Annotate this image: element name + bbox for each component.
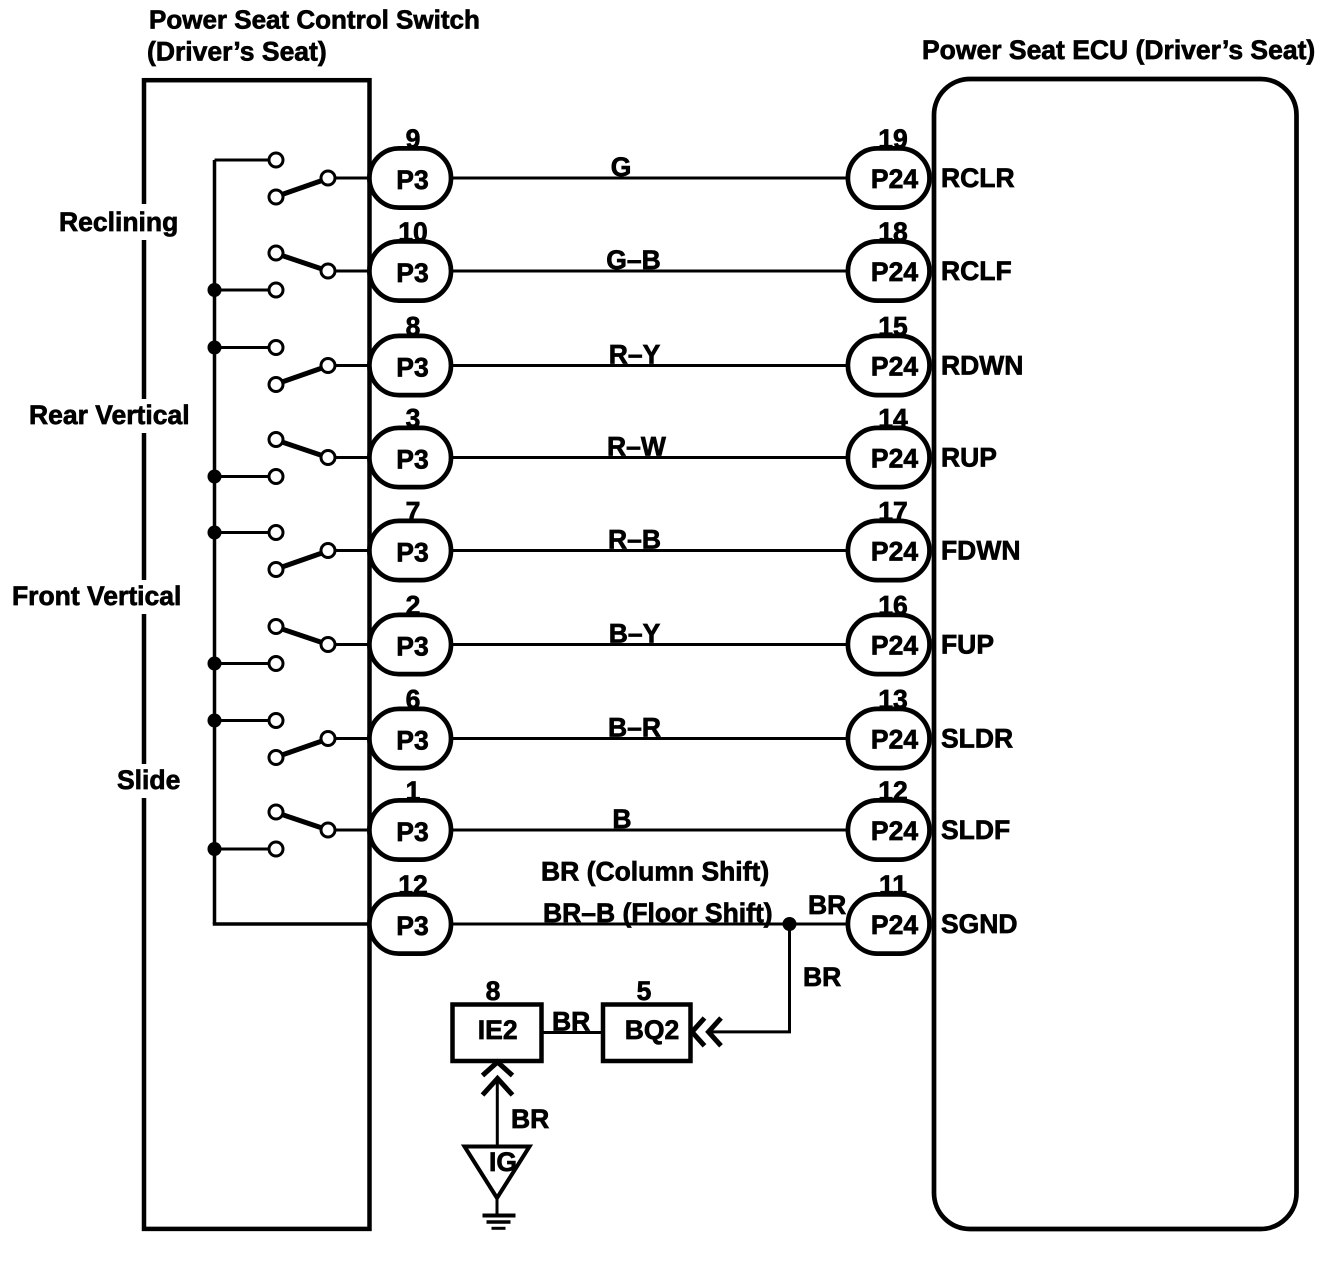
wire R–W (row 4) <box>451 432 849 462</box>
svg-text:R–Y: R–Y <box>609 340 661 370</box>
svg-text:P24: P24 <box>871 352 918 382</box>
connector P24 pin 13 <box>848 685 930 769</box>
svg-text:G–B: G–B <box>606 245 661 275</box>
wire G–B (row 2) <box>451 245 849 275</box>
label: Front Vertical <box>5 580 181 614</box>
connector P3 pin 12 <box>369 870 451 954</box>
signal RCLF <box>941 256 1012 286</box>
connector IE2 pin 8 <box>453 976 542 1061</box>
label BR (IE2-BQ2 wire) <box>552 1007 590 1037</box>
svg-text:7: 7 <box>406 497 421 527</box>
label BR (near junction) <box>808 890 846 920</box>
svg-text:P3: P3 <box>396 911 428 941</box>
connector P24 pin 16 <box>848 591 930 675</box>
switch box (Power Seat Control Switch, Driver's Seat) <box>144 80 370 1229</box>
svg-text:P24: P24 <box>871 257 918 287</box>
svg-text:SLDF: SLDF <box>941 815 1010 845</box>
svg-text:14: 14 <box>878 404 908 434</box>
label: Slide <box>110 764 184 798</box>
signal SLDF <box>941 815 1010 845</box>
svg-text:12: 12 <box>398 870 427 900</box>
wire G (row 1) <box>451 152 849 182</box>
svg-text:P3: P3 <box>396 632 428 662</box>
svg-text:BR (Column Shift): BR (Column Shift) <box>541 857 769 887</box>
svg-text:10: 10 <box>398 217 427 247</box>
svg-text:G: G <box>611 152 632 182</box>
connector P3 pin 9 <box>369 124 451 208</box>
svg-text:P24: P24 <box>871 444 918 474</box>
connector chevrons at BQ2 right (<<) <box>692 1018 721 1046</box>
switch S2 (Reclining front) <box>208 246 373 297</box>
signal RUP <box>941 443 997 473</box>
wire R–B (row 5) <box>451 525 849 555</box>
label BR (IG wire) <box>511 1104 549 1134</box>
svg-text:BR: BR <box>803 962 841 992</box>
svg-text:BR: BR <box>511 1104 549 1134</box>
connector P24 pin 18 <box>848 217 930 301</box>
wire: IE2 to BQ2 (BR) <box>542 1031 604 1034</box>
svg-text:RCLR: RCLR <box>941 163 1015 193</box>
svg-text:16: 16 <box>878 591 907 621</box>
svg-text:BQ2: BQ2 <box>625 1015 680 1045</box>
svg-text:2: 2 <box>406 591 421 621</box>
connector P24 pin 17 <box>848 497 930 581</box>
connector P3 pin 3 <box>369 404 451 488</box>
ECU box (Power Seat ECU, Driver's Seat) <box>934 79 1297 1229</box>
svg-text:P24: P24 <box>871 910 918 940</box>
switch S8 (Slide front) <box>208 805 373 856</box>
svg-text:R–W: R–W <box>607 432 666 462</box>
connector P24 pin 19 <box>848 124 930 208</box>
connector P24 pin 12 <box>848 776 930 860</box>
connector chevrons below IE2 (^^) <box>483 1062 513 1095</box>
connector P3 pin 6 <box>369 685 451 769</box>
svg-text:P3: P3 <box>396 817 428 847</box>
svg-text:P24: P24 <box>871 816 918 846</box>
svg-text:FDWN: FDWN <box>941 536 1020 566</box>
svg-text:RCLF: RCLF <box>941 256 1012 286</box>
connector P3 pin 2 <box>369 591 451 675</box>
svg-text:18: 18 <box>878 217 907 247</box>
svg-text:FUP: FUP <box>941 630 994 660</box>
svg-text:P24: P24 <box>871 725 918 755</box>
svg-text:IE2: IE2 <box>478 1015 518 1045</box>
svg-text:P3: P3 <box>396 353 428 383</box>
svg-text:Front Vertical: Front Vertical <box>12 581 181 611</box>
svg-text:B–R: B–R <box>608 713 661 743</box>
label: Power Seat Control Switch title <box>147 5 480 67</box>
svg-text:BR–B (Floor Shift): BR–B (Floor Shift) <box>543 898 773 928</box>
svg-text:P24: P24 <box>871 537 918 567</box>
wire: IG to IE2 (BR) <box>496 1079 499 1147</box>
signal RCLR <box>941 163 1015 193</box>
switch S7 (Slide rear) <box>208 714 373 765</box>
label: Reclining <box>52 204 178 240</box>
switch S1 (Reclining rear) <box>215 153 373 204</box>
svg-text:13: 13 <box>878 685 907 715</box>
svg-text:17: 17 <box>878 497 907 527</box>
wire: bus to SGND row (horizontal) <box>213 922 372 926</box>
wire: switch common bus (vertical) <box>213 160 217 924</box>
connector P3 pin 8 <box>369 312 451 396</box>
power source IG (triangle) <box>465 1147 530 1199</box>
svg-text:RDWN: RDWN <box>941 351 1023 381</box>
wire: junction down to BQ2 (BR) <box>710 924 791 1033</box>
signal FDWN <box>941 536 1020 566</box>
svg-text:BR: BR <box>552 1007 590 1037</box>
svg-text:9: 9 <box>406 124 421 154</box>
svg-text:B–Y: B–Y <box>609 619 661 649</box>
svg-text:5: 5 <box>637 976 652 1006</box>
svg-text:P3: P3 <box>396 258 428 288</box>
connector BQ2 pin 5 <box>603 976 691 1061</box>
svg-text:R–B: R–B <box>608 525 661 555</box>
wire: IG apex to ground <box>496 1198 499 1215</box>
svg-text:IG: IG <box>489 1147 517 1177</box>
svg-text:11: 11 <box>879 870 907 900</box>
svg-text:1: 1 <box>406 776 421 806</box>
svg-text:19: 19 <box>878 124 907 154</box>
svg-text:12: 12 <box>878 776 907 806</box>
svg-text:8: 8 <box>486 976 501 1006</box>
connector P24 pin 14 <box>848 404 930 488</box>
svg-text:RUP: RUP <box>941 443 997 473</box>
wire R–Y (row 3) <box>451 340 849 370</box>
signal SLDR <box>941 724 1013 754</box>
signal RDWN <box>941 351 1023 381</box>
junction: SGND wire to ground branch <box>783 917 797 931</box>
svg-text:Reclining: Reclining <box>59 207 178 237</box>
svg-text:BR: BR <box>808 890 846 920</box>
svg-text:SLDR: SLDR <box>941 724 1013 754</box>
svg-text:8: 8 <box>406 312 421 342</box>
svg-text:Power Seat Control Switch: Power Seat Control Switch <box>149 5 480 35</box>
svg-text:P3: P3 <box>396 165 428 195</box>
label BR (vertical wire) <box>803 962 841 992</box>
label: Rear Vertical <box>22 399 190 433</box>
svg-text:P3: P3 <box>396 538 428 568</box>
ground <box>483 1216 516 1229</box>
switch S6 (Front Vertical up) <box>208 620 373 671</box>
svg-text:B: B <box>612 804 631 834</box>
wire B (row 8) <box>451 804 849 834</box>
svg-text:Power Seat ECU (Driver’s Seat): Power Seat ECU (Driver’s Seat) <box>922 35 1315 65</box>
wire BR / BR-B (row 9, SGND) <box>451 857 849 929</box>
svg-text:P3: P3 <box>396 726 428 756</box>
connector P24 pin 15 <box>848 312 930 396</box>
svg-text:SGND: SGND <box>941 909 1018 939</box>
svg-text:(Driver’s Seat): (Driver’s Seat) <box>147 37 327 67</box>
connector P3 pin 7 <box>369 497 451 581</box>
signal SGND <box>941 909 1018 939</box>
label: Power Seat ECU title <box>922 35 1315 65</box>
wire B–R (row 7) <box>451 713 849 743</box>
svg-text:P24: P24 <box>871 631 918 661</box>
svg-text:6: 6 <box>406 685 421 715</box>
switch S5 (Front Vertical down) <box>208 526 373 577</box>
svg-text:Slide: Slide <box>117 765 180 795</box>
signal FUP <box>941 630 994 660</box>
connector P3 pin 10 <box>369 217 451 301</box>
svg-text:P24: P24 <box>871 164 918 194</box>
svg-text:15: 15 <box>878 312 907 342</box>
connector P3 pin 1 <box>369 776 451 860</box>
svg-text:Rear Vertical: Rear Vertical <box>29 400 190 430</box>
svg-text:3: 3 <box>406 404 421 434</box>
wire B–Y (row 6) <box>451 619 849 649</box>
connector P24 pin 11 <box>848 870 930 954</box>
svg-text:P3: P3 <box>396 445 428 475</box>
switch S4 (Rear Vertical up) <box>208 433 373 484</box>
switch S3 (Rear Vertical down) <box>208 341 373 392</box>
